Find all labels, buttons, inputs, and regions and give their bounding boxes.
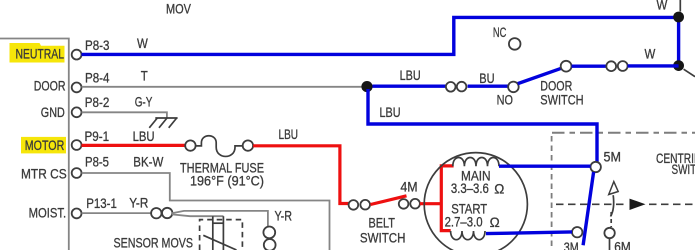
svg-text:P8-2: P8-2 <box>85 95 110 110</box>
wire to MOV top <box>679 0 681 12</box>
wire exit right <box>684 69 695 76</box>
svg-text:BU: BU <box>479 71 494 86</box>
svg-text:DOOR: DOOR <box>540 78 572 93</box>
wire blue start to 3M <box>486 232 572 234</box>
centrifugal blade 5M-3M <box>583 172 594 245</box>
control board box <box>0 39 69 250</box>
Y-R stacked connector circles <box>263 227 275 239</box>
centrifugal box left dashed <box>551 136 553 250</box>
6M stub <box>609 238 611 250</box>
door switch NO contact <box>508 82 519 93</box>
svg-text:LBU: LBU <box>279 127 299 142</box>
svg-text:W: W <box>657 0 668 13</box>
centrifugal 6M contact <box>604 228 614 238</box>
rotation axis dashed left <box>556 203 626 205</box>
svg-text:SENSOR MOVS: SENSOR MOVS <box>114 236 194 250</box>
svg-text:MTR CS: MTR CS <box>21 167 67 182</box>
belt switch connector circles <box>349 200 359 210</box>
door connector circles <box>446 82 456 92</box>
wire Y-R branch B <box>172 214 224 216</box>
svg-text:Ω: Ω <box>494 182 504 197</box>
svg-text:MOIST.: MOIST. <box>29 206 67 221</box>
wire LBU red from P9-1 <box>82 144 186 147</box>
svg-text:MOTOR: MOTOR <box>25 138 65 153</box>
svg-text:W: W <box>645 47 656 62</box>
node junction top right <box>673 12 684 23</box>
svg-text:G-Y: G-Y <box>135 94 153 109</box>
svg-text:196°F (91°C): 196°F (91°C) <box>190 174 264 189</box>
wire red 4M to motor <box>420 202 441 205</box>
svg-text:W: W <box>137 36 148 51</box>
terminal P8-2 <box>72 107 82 117</box>
svg-text:LBU: LBU <box>133 129 155 144</box>
terminal P8-5 <box>72 168 82 178</box>
svg-text:2.7–3.0: 2.7–3.0 <box>445 215 483 230</box>
svg-text:4M: 4M <box>400 180 417 195</box>
svg-text:LBU: LBU <box>380 105 401 120</box>
svg-text:NO: NO <box>497 92 513 107</box>
actuator dashed link <box>610 212 612 227</box>
svg-text:T: T <box>141 68 148 83</box>
right connector circles <box>606 61 616 71</box>
svg-text:P13-1: P13-1 <box>86 196 117 211</box>
svg-text:GND: GND <box>41 105 65 120</box>
wire Y-R gray <box>82 212 152 214</box>
wire W blue right <box>572 64 607 67</box>
wire blue main to 5M <box>499 164 591 167</box>
svg-text:3M: 3M <box>564 240 579 250</box>
wire W blue to junction <box>628 64 679 67</box>
ground chassis symbol <box>149 118 177 128</box>
belt switch right circles <box>399 199 409 209</box>
wire Y-R branch A <box>172 211 268 227</box>
svg-text:Ω: Ω <box>490 215 500 230</box>
centrifugal box top dash-dot <box>552 132 695 134</box>
node junction mid right <box>673 60 684 71</box>
svg-text:P8-4: P8-4 <box>85 70 110 85</box>
door switch blade <box>518 68 562 83</box>
svg-text:5M: 5M <box>604 149 622 164</box>
svg-text:BK-W: BK-W <box>133 155 163 170</box>
thermal fuse F1 <box>185 136 253 157</box>
svg-text:LBU: LBU <box>400 68 421 83</box>
rotation axis dashed right <box>649 203 695 205</box>
motor main winding coil <box>453 158 499 167</box>
svg-text:DOOR: DOOR <box>34 79 66 94</box>
svg-text:P9-1: P9-1 <box>85 129 110 144</box>
spinner actuator arrow tail <box>611 195 614 216</box>
sensor MOVs dashed box <box>200 220 243 250</box>
svg-text:SWITCH: SWITCH <box>360 231 406 246</box>
centrifugal 5M contact <box>591 162 601 172</box>
door switch NC contact <box>509 38 521 50</box>
svg-text:NEUTRAL: NEUTRAL <box>16 47 65 62</box>
svg-text:Y-R: Y-R <box>129 195 148 210</box>
rotation arrow triangle <box>630 199 646 210</box>
wire BU blue 2 <box>468 84 509 87</box>
terminal P8-3 <box>72 50 82 60</box>
spinner actuator arrow head <box>609 182 619 195</box>
wire LBU blue down branch <box>368 89 597 162</box>
belt switch blade <box>371 196 407 205</box>
MOTOR highlight <box>21 137 66 154</box>
svg-text:P8-5: P8-5 <box>85 155 109 170</box>
svg-text:P8-3: P8-3 <box>85 38 110 53</box>
motor M1 body <box>424 153 527 250</box>
svg-text:Y-R: Y-R <box>275 208 293 223</box>
terminal P13-1 <box>72 209 82 219</box>
svg-text:6M: 6M <box>614 240 631 250</box>
wire W neutral blue <box>82 17 679 54</box>
wire LBU red to belt switch <box>253 146 349 204</box>
wire G-Y gray <box>82 112 167 117</box>
svg-text:BELT: BELT <box>369 215 395 230</box>
svg-text:MOV: MOV <box>166 2 191 17</box>
centrifugal 3M contact <box>572 227 582 237</box>
wire T gray <box>82 86 362 88</box>
wire W vertical right <box>677 17 680 65</box>
Y-R connector circles <box>151 208 161 218</box>
svg-text:3.3–3.6: 3.3–3.6 <box>451 181 489 196</box>
motor feed bracket <box>441 166 453 231</box>
svg-text:SWITCH: SWITCH <box>672 162 695 177</box>
svg-text:NC: NC <box>493 25 507 40</box>
NEUTRAL highlight <box>10 43 65 63</box>
node junction LBU <box>361 81 372 92</box>
wire BK-W gray <box>82 173 330 250</box>
door switch arm pivot <box>561 61 572 72</box>
svg-text:SWITCH: SWITCH <box>540 93 583 108</box>
terminal P9-1 <box>72 140 82 150</box>
wire BU blue <box>373 84 447 87</box>
terminal P8-4 <box>72 83 82 93</box>
sensor MOV element <box>203 216 236 250</box>
motor start winding coil <box>451 231 485 240</box>
